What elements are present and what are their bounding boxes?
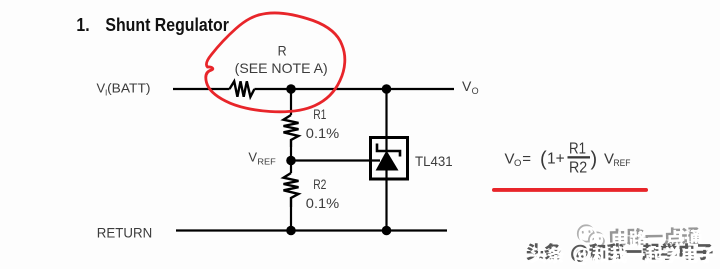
node: R2 to return rail [286,226,296,236]
wire: TL431 anode column (bottom) [385,171,387,231]
svg-text:O: O [472,86,479,96]
svg-text:R2: R2 [313,177,326,192]
svg-text:1+: 1+ [547,151,565,168]
svg-text:R1: R1 [313,107,326,122]
svg-text:=: = [522,151,531,168]
watermark logo: two smiley faces [578,225,604,247]
label Vo [462,78,479,96]
node: TL431 anode to return rail [382,226,392,236]
svg-text:R2: R2 [569,160,587,177]
wire: top rail from Vi(BATT) to Vo [173,88,454,90]
svg-text:1.: 1. [76,15,89,35]
node: junction rail / TL431 [382,84,392,94]
wire: TL431 cathode column (top) [385,89,387,151]
svg-text:0.1%: 0.1% [306,125,339,141]
resistor R1 [284,115,299,147]
node: VREF junction [286,156,296,166]
red underline under formula [492,188,648,192]
title: 1. Shunt Regulator [76,15,229,35]
svg-text:(SEE NOTE A): (SEE NOTE A) [235,60,328,76]
resistor R (horizontal, SEE NOTE A) [230,81,255,97]
red hand-drawn circle around R [206,13,345,112]
svg-text:V: V [248,149,257,164]
svg-text:Shunt Regulator: Shunt Regulator [105,15,228,35]
svg-text:TL431: TL431 [415,153,453,169]
node: junction Vi rail / R1 [286,84,296,94]
svg-text:0.1%: 0.1% [306,195,339,211]
formula Vo = (1 + R1/R2) VREF [505,141,631,177]
svg-text:R: R [278,44,287,59]
wire: R1-R2 column [290,89,292,231]
wire: VREF to TL431 ref input [291,159,380,161]
zener cathode bar with wings [377,144,400,157]
svg-text:V: V [462,78,472,94]
wire: bottom RETURN rail [176,229,447,231]
svg-text:V: V [604,151,614,168]
svg-text:R1: R1 [569,141,586,158]
IC U1: TL431 shunt regulator symbol [371,138,408,180]
svg-text:O: O [514,158,521,169]
box [371,138,408,180]
resistor R2 [284,173,299,207]
svg-text:): ) [591,149,598,171]
svg-text:RETURN: RETURN [97,226,152,241]
svg-text:V: V [505,151,515,168]
label Vi(BATT) [97,81,151,98]
label VREF [248,149,275,166]
svg-text:REF: REF [614,158,631,169]
svg-text:(BATT): (BATT) [107,81,150,96]
svg-text:REF: REF [257,157,275,167]
svg-text:(: ( [540,149,547,171]
triangle (anode) [376,151,399,171]
